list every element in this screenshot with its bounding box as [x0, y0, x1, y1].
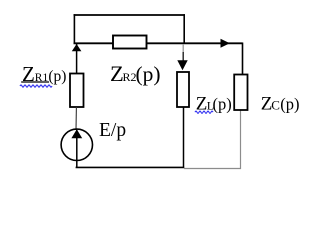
svg-text:(p): (p)	[280, 95, 299, 114]
svg-text:(p): (p)	[48, 68, 66, 85]
svg-text:C: C	[271, 98, 280, 113]
svg-text:E/p: E/p	[99, 120, 126, 141]
svg-text:(p): (p)	[213, 94, 232, 113]
svg-text:R2: R2	[123, 70, 137, 84]
svg-text:(p): (p)	[136, 62, 161, 86]
svg-text:Z: Z	[196, 93, 208, 114]
